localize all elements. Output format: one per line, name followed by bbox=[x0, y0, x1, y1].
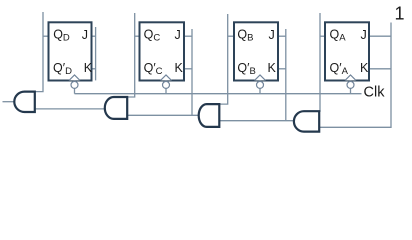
wire Q_B output vertical bbox=[219, 14, 227, 104]
wire J/K tie line FF1 bbox=[95, 27, 97, 80]
clock bubble U3 bbox=[257, 81, 264, 88]
AND gate G3 bbox=[199, 104, 220, 127]
svg-text:J: J bbox=[175, 28, 181, 42]
wire Q_D output vertical bbox=[35, 12, 43, 92]
svg-text:K: K bbox=[360, 61, 369, 75]
clock edge triangle U4 bbox=[345, 75, 356, 80]
wire gate1 output bbox=[3, 101, 15, 103]
wire J stub FF4 bbox=[369, 35, 391, 37]
svg-text:Clk: Clk bbox=[364, 85, 386, 101]
flip-flop U3 box (Q_B) bbox=[234, 22, 278, 80]
wire gate4 output to gate3 input bbox=[219, 120, 294, 122]
svg-text:J: J bbox=[269, 28, 275, 42]
svg-text:K: K bbox=[268, 61, 277, 75]
wire J stub FF2 bbox=[184, 35, 192, 37]
wire K stub FF3 bbox=[278, 68, 286, 70]
wire Q_B stub to FF3 bbox=[228, 35, 234, 37]
wire Q_D stub to FF1 bbox=[43, 35, 49, 37]
wire gate3 output to gate2 input bbox=[127, 114, 199, 116]
clock bubble U4 bbox=[347, 81, 354, 88]
wire Q_C output vertical bbox=[127, 13, 135, 97]
clock bubble U1 bbox=[71, 81, 78, 88]
wire K stub FF2 bbox=[184, 68, 192, 70]
AND gate G1 bbox=[14, 92, 35, 112]
flip-flop U1 box (Q_D) bbox=[49, 22, 92, 80]
wire clock drop FF1 bbox=[74, 88, 76, 93]
clock bubble U2 bbox=[163, 81, 170, 88]
flip-flop U4 box (Q_A) bbox=[325, 22, 369, 80]
flip-flop U2 box (Q_C) bbox=[140, 22, 185, 80]
clock edge triangle U3 bbox=[255, 75, 266, 80]
clock edge triangle U1 bbox=[69, 75, 80, 80]
wire gate2 output to gate1 input bbox=[35, 108, 107, 110]
wire Q_C stub to FF2 bbox=[135, 35, 140, 37]
wire J/K tie line FF2 bbox=[191, 29, 193, 115]
clock edge triangle U2 bbox=[161, 75, 172, 80]
wire K stub FF1 bbox=[92, 68, 96, 70]
wire Q_A output vertical bbox=[319, 13, 320, 111]
wire logic-1 rail bbox=[319, 23, 391, 128]
wire clock drop FF2 bbox=[165, 88, 167, 93]
AND gate G2 bbox=[105, 97, 127, 119]
wire Q_A stub to FF4 bbox=[320, 35, 325, 37]
svg-text:J: J bbox=[82, 28, 88, 42]
wire J stub FF1 bbox=[92, 35, 96, 37]
wire clock drop FF3 bbox=[259, 88, 261, 93]
svg-text:J: J bbox=[361, 28, 367, 42]
wire J stub FF3 bbox=[278, 35, 286, 37]
wire clock drop FF4 bbox=[350, 88, 352, 93]
wire J/K tie line FF3 bbox=[285, 29, 287, 121]
AND gate G4 bbox=[294, 111, 319, 131]
wire clock trunk bbox=[75, 93, 362, 95]
wire K stub FF4 bbox=[369, 68, 391, 70]
svg-text:K: K bbox=[175, 61, 184, 75]
svg-text:1: 1 bbox=[395, 4, 405, 24]
svg-text:K: K bbox=[84, 61, 93, 75]
